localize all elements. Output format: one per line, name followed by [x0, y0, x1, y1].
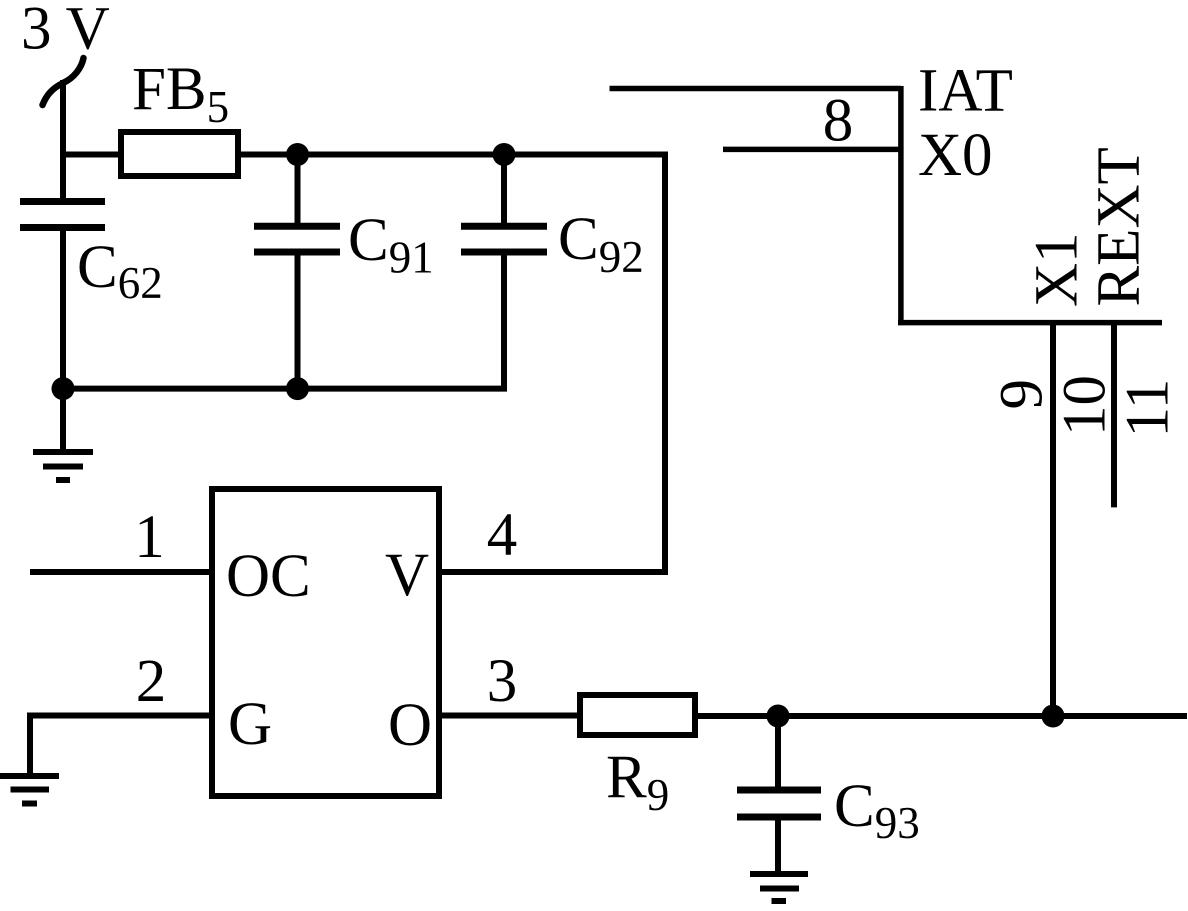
svg-text:X1: X1: [1024, 232, 1091, 307]
junction dot at C93: [767, 705, 790, 728]
wire C93 top: [775, 716, 781, 787]
pin 9 wire: [1050, 323, 1056, 716]
svg-text:3: 3: [487, 648, 518, 715]
wire C91 bottom: [295, 252, 301, 391]
pin 2 wire to ground: [30, 716, 209, 777]
svg-text:8: 8: [823, 88, 854, 155]
connector U2 outline (pin 8 notch and bottom edge): [610, 86, 1163, 323]
wire C92 bottom to ground bus: [63, 252, 504, 389]
svg-text:G: G: [228, 691, 272, 758]
junction dot at C92 top: [493, 143, 516, 166]
svg-text:11: 11: [1115, 379, 1182, 438]
capacitor C93: [737, 790, 821, 817]
svg-text:O: O: [388, 692, 432, 759]
svg-text:1: 1: [134, 504, 165, 571]
svg-text:9: 9: [989, 379, 1056, 410]
ferrite bead FB5: [121, 132, 238, 176]
ground symbol G1: [33, 452, 93, 480]
wire C93 to ground: [775, 817, 781, 874]
junction dot at FB5-C91: [286, 143, 309, 166]
wire C91 top: [295, 155, 301, 227]
wire C62 to ground bus: [60, 228, 66, 391]
svg-text:3 V: 3 V: [21, 0, 110, 63]
capacitor C91: [254, 226, 340, 252]
junction dot at pin 9: [1042, 705, 1065, 728]
wire R9 to right edge: [695, 713, 1187, 719]
svg-text:X0: X0: [918, 122, 993, 189]
svg-text:4: 4: [487, 502, 518, 569]
pin 3 wire: [442, 713, 580, 719]
capacitor C92: [461, 226, 547, 252]
pin 10 wire: [1111, 323, 1117, 508]
wire ground drop: [60, 389, 66, 452]
junction dot at C62 ground bus: [52, 377, 75, 400]
resistor R9: [580, 695, 695, 735]
ground symbol G3: [750, 874, 808, 901]
svg-text:10: 10: [1052, 375, 1119, 436]
wire C92 top: [501, 155, 507, 227]
pin 1 wire: [30, 569, 209, 575]
wire FB5 to node V4 (top rail turning down to pin 4): [238, 155, 665, 573]
svg-text:V: V: [385, 542, 429, 609]
off-page connector squiggle at 3V: [43, 58, 84, 105]
svg-text:2: 2: [136, 648, 167, 715]
capacitor C62: [20, 202, 105, 228]
svg-text:REXT: REXT: [1086, 147, 1153, 306]
svg-text:OC: OC: [226, 543, 311, 610]
IC U1 body: [212, 489, 439, 796]
svg-text:IAT: IAT: [918, 58, 1013, 125]
wire 3V vertical to C62: [60, 80, 66, 201]
junction dot at C91 ground bus: [286, 377, 309, 400]
ground symbol G2: [0, 776, 59, 804]
wire 3V node to FB5: [63, 152, 120, 158]
